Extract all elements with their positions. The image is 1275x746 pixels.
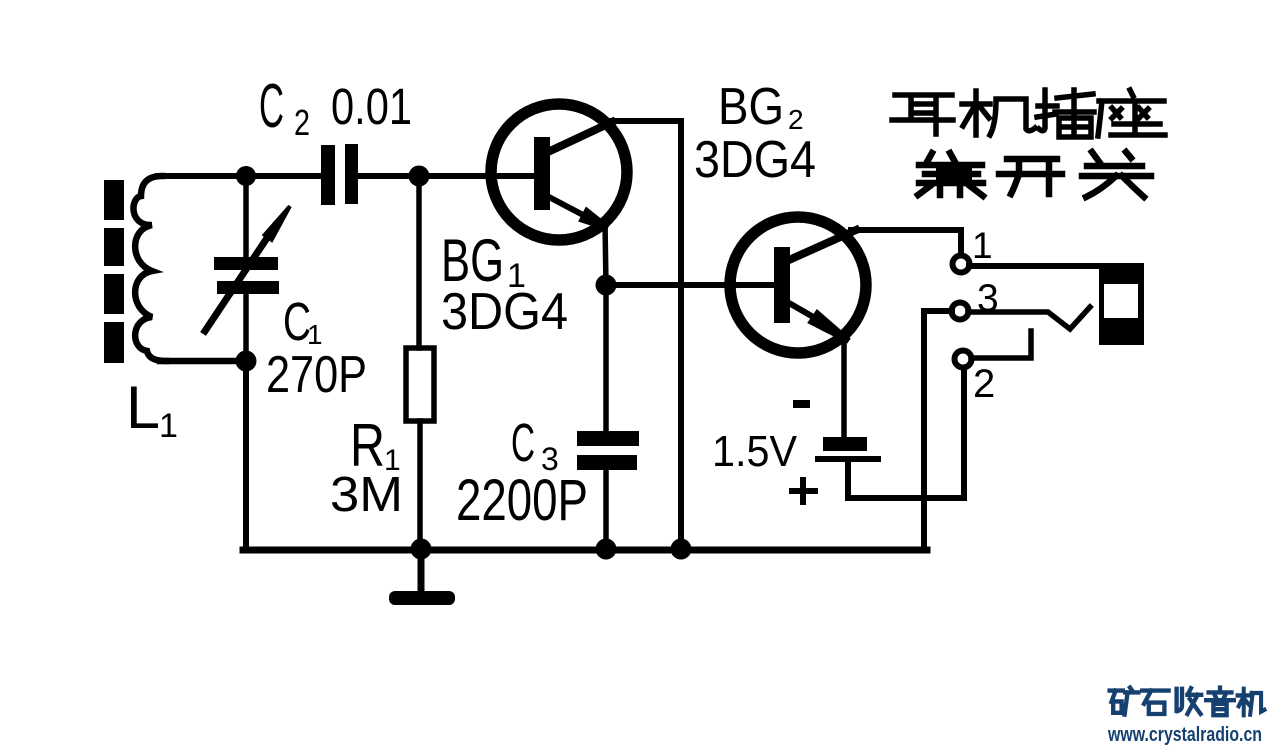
svg-text:2: 2: [973, 362, 995, 406]
transistor BG2 base bar: [774, 247, 790, 323]
transistor BG2 emitter stroke with arrow: [789, 303, 815, 318]
transistor BG1 emitter stroke with arrow: [549, 197, 585, 216]
L1 ferrite core (dashed bar): [104, 180, 124, 363]
node F: junction dot (C3 bottom): [596, 539, 617, 560]
wire: battery positive to terminal 2: [848, 368, 964, 498]
svg-text:1.5V: 1.5V: [712, 427, 798, 476]
ground symbol bar: [389, 591, 455, 605]
jack terminal 3 circle: [952, 303, 969, 320]
label L1: [126, 374, 178, 445]
wire: vertical from top rail down to ground rail: [678, 121, 684, 550]
resistor R1 body: [406, 348, 434, 421]
wire: BG1 collector top rail: [607, 118, 681, 124]
wire: C2 right plate to BG1 base: [358, 173, 536, 179]
wire: BG1 emitter down to node D: [605, 222, 606, 287]
wire: R1 bottom to ground rail: [417, 421, 423, 550]
svg-text:1: 1: [972, 225, 993, 266]
ground symbol stem: [418, 550, 425, 592]
transistor BG1 circle: [491, 104, 627, 240]
capacitor C2 plates: [321, 144, 358, 205]
svg-text:L: L: [126, 374, 160, 441]
jack terminal 1 circle: [953, 256, 970, 273]
svg-text:C: C: [259, 72, 284, 141]
battery plus sign: [792, 480, 815, 502]
wire: C1 bottom plate to node B: [243, 294, 249, 362]
node B: junction dot (L1 bottom / C1 bottom): [236, 351, 257, 372]
title char 插: [1037, 90, 1094, 137]
jack terminal 2 circle: [955, 351, 972, 368]
label BG1 type 3DG4: [441, 283, 568, 341]
wire: terminal 3 spring contact (check shape): [968, 307, 1090, 329]
node G: junction dot (collector rail bottom): [671, 539, 692, 560]
wire: node D down to C3 top plate: [603, 285, 609, 432]
ground rail (bottom bus wire): [243, 547, 927, 554]
watermark logo text 矿石收音机: [1110, 688, 1265, 716]
label C2: [259, 72, 310, 143]
svg-text:1: 1: [159, 407, 178, 445]
svg-text:www.crystalradio.cn: www.crystalradio.cn: [1107, 724, 1262, 746]
svg-text:C: C: [511, 413, 535, 473]
svg-text:3DG4: 3DG4: [441, 283, 568, 341]
wire: BG2 emitter down to battery: [841, 336, 847, 440]
capacitor C3 plates: [577, 431, 639, 470]
svg-text:3DG4: 3DG4: [694, 131, 816, 189]
transistor BG2 circle: [730, 217, 866, 353]
wire: C3 bottom plate to ground rail: [603, 470, 609, 550]
svg-text:2200P: 2200P: [456, 468, 588, 533]
battery B1 positive plate: [815, 456, 881, 462]
battery B1 negative plate: [823, 437, 867, 451]
wire: BG2 collector to jack terminal 1: [851, 230, 961, 254]
variable capacitor C1 plates: [214, 257, 279, 294]
wire: node C down to R1 top: [416, 176, 422, 348]
label BG2: [718, 78, 804, 136]
title char 座: [1098, 90, 1165, 136]
node E: junction dot (R1 bottom / ground symbol): [411, 539, 432, 560]
transistor BG2 collector stroke: [789, 230, 856, 260]
wire: node B down to ground rail corner: [243, 361, 249, 550]
pin label 2: [973, 362, 995, 406]
svg-text:270P: 270P: [266, 346, 367, 404]
title char 机: [962, 91, 1035, 135]
wire: node D to BG2 base: [606, 282, 778, 288]
title char 耳: [892, 95, 953, 134]
transistor BG1 collector stroke: [550, 122, 612, 151]
wire: terminal 1 to headphone plug: [969, 263, 1110, 269]
variable capacitor C1 arrow: [205, 226, 275, 331]
inductor L1 coil body: [133, 176, 166, 361]
svg-text:2: 2: [294, 102, 310, 143]
label R1: [350, 412, 401, 479]
watermark char 收: [1177, 688, 1202, 714]
label battery value 1.5V: [712, 427, 798, 476]
headphone plug symbol: [1099, 263, 1144, 345]
node D: junction dot (BG1 emitter / C3 / BG2 base): [596, 275, 617, 296]
title char 开: [999, 159, 1062, 194]
svg-text:3M: 3M: [330, 468, 403, 522]
node C: junction dot (C2 / R1 / BG1 base): [409, 166, 430, 187]
wire: node A down to C1 top plate: [243, 176, 249, 257]
watermark char 机: [1238, 689, 1265, 715]
label BG1: [441, 227, 526, 295]
battery minus sign: [793, 400, 810, 408]
wire: top rail from L1 to C2 left plate: [158, 173, 321, 179]
watermark char 矿: [1110, 688, 1139, 715]
node A: junction dot top-left (L1/C1 top): [236, 166, 256, 186]
label BG2 type 3DG4: [694, 131, 816, 189]
label C3 value 2200P: [456, 468, 588, 533]
label C2 value 0.01: [331, 78, 412, 135]
wire: terminal 2 contact stub: [971, 331, 1031, 358]
transistor BG1 base bar: [534, 137, 550, 210]
wire: terminal 3 to ground rail (down the right side): [924, 311, 952, 550]
pin label 1: [972, 225, 993, 266]
watermark char 音: [1206, 688, 1234, 716]
label C1 value 270P: [266, 346, 367, 404]
svg-text:BG: BG: [718, 78, 784, 136]
title char 兼: [918, 153, 983, 196]
Chinese title: 耳机插座 / 兼开关: [892, 90, 1165, 137]
title char 关: [1082, 152, 1151, 197]
watermark char 石: [1142, 691, 1168, 714]
pin label 3: [977, 277, 999, 320]
label R1 value 3M: [330, 468, 403, 522]
label C3: [511, 413, 559, 477]
svg-text:0.01: 0.01: [331, 78, 412, 135]
label C1: [283, 292, 323, 352]
wire: L1 bottom to node: [160, 358, 248, 365]
watermark url: [1107, 724, 1262, 746]
